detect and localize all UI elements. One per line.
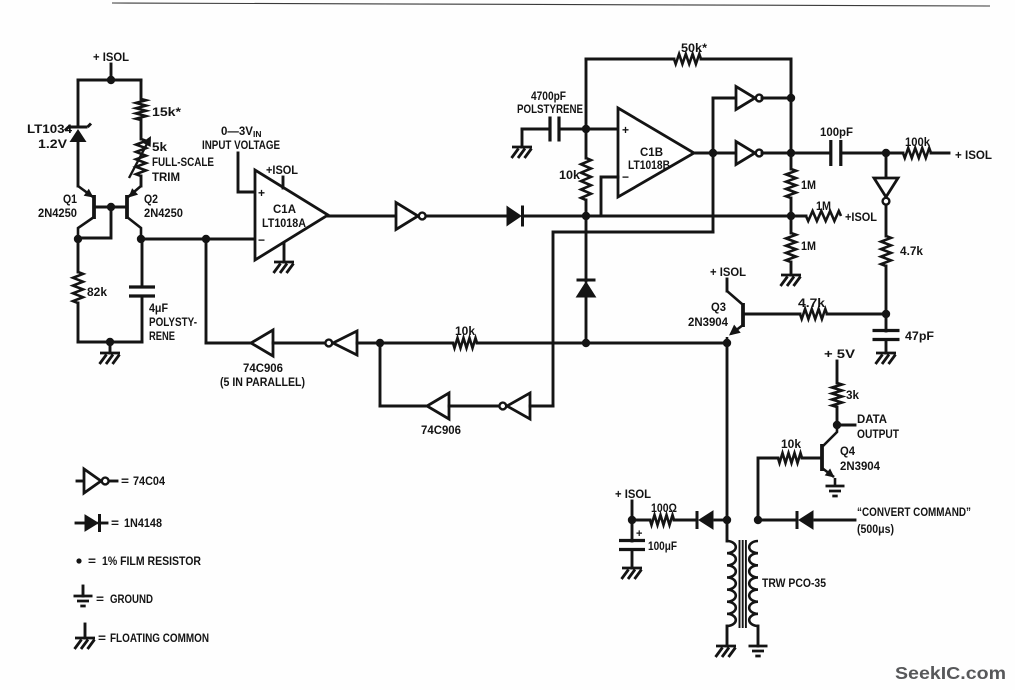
svg-text:4.7k: 4.7k: [798, 298, 826, 310]
capacitor 4700pF polystyrene: [550, 117, 559, 142]
node Q1 collector / 82k: [74, 235, 82, 243]
svg-text:POLSTYRENE: POLSTYRENE: [517, 104, 583, 116]
resistor 5k full-scale trim: [136, 139, 146, 176]
floating common 100uF: [622, 568, 643, 579]
wire 5V stub: [836, 361, 839, 383]
wire C1B output down: [712, 153, 715, 232]
wire left branch down: [77, 80, 80, 126]
svg-text:10k: 10k: [559, 170, 581, 182]
svg-text:3k: 3k: [846, 390, 860, 402]
svg-text:=: =: [88, 556, 96, 568]
wire 1M horizontal lead: [791, 215, 806, 218]
svg-text:RENE: RENE: [149, 331, 175, 343]
svg-text:74C906: 74C906: [421, 425, 461, 437]
svg-text:−: −: [622, 170, 629, 184]
svg-text:FLOATING COMMON: FLOATING COMMON: [110, 633, 209, 645]
node Q2 collector: [137, 235, 145, 243]
svg-text:+ ISOL: + ISOL: [615, 489, 651, 501]
wire summing row: [141, 238, 254, 241]
wire D3 to node: [715, 519, 727, 522]
wire 1M lower lead: [790, 216, 793, 233]
svg-text:4.7k: 4.7k: [900, 246, 924, 258]
wire Q3 emitter to transformer: [726, 343, 729, 520]
wire 100ohm left lead: [632, 519, 650, 522]
svg-text:INPUT VOLTAGE: INPUT VOLTAGE: [202, 140, 280, 152]
wire down inverter out: [885, 206, 888, 236]
node 1M junction: [787, 212, 795, 220]
svg-text:15k*: 15k*: [152, 107, 182, 119]
svg-text:Q1: Q1: [63, 194, 78, 206]
node 4.7k 47pF: [882, 310, 890, 318]
node C1B output: [709, 149, 717, 157]
svg-text:GROUND: GROUND: [110, 594, 153, 606]
svg-text:4μF: 4μF: [149, 303, 168, 315]
wire feedback rail: [790, 59, 793, 169]
transistor Q2 2N4250: [125, 195, 129, 219]
wire feedback top left: [586, 58, 674, 61]
svg-text:+ ISOL: + ISOL: [710, 267, 746, 279]
wire zener to Q1 emitter: [77, 142, 80, 186]
wire Q2 collector to cap: [141, 240, 144, 287]
wire Q3 base: [743, 313, 800, 316]
wire vertical diode to 10k row: [585, 297, 588, 343]
svg-text:TRIM: TRIM: [152, 172, 180, 184]
wire to 100pF: [791, 152, 830, 155]
wire 100pF to node: [841, 152, 886, 155]
resistor 1M lower: [786, 233, 796, 262]
svg-text:+ ISOL: + ISOL: [93, 52, 129, 64]
wire 100uF top lead: [631, 520, 634, 541]
trim arrow on 5k: [129, 140, 149, 178]
wire to 47pF: [885, 314, 888, 331]
capacitor 4uF polystyrene: [129, 287, 155, 296]
transformer primary winding: [727, 541, 736, 626]
svg-text:FULL-SCALE: FULL-SCALE: [152, 157, 214, 169]
svg-text:100pF: 100pF: [820, 127, 853, 139]
wire bottom row left: [380, 405, 427, 408]
wire 100k to isol: [931, 152, 949, 155]
svg-text:=: =: [111, 518, 119, 530]
wire 47pF to fc: [885, 340, 888, 353]
wire 4700pF fc drop: [521, 129, 524, 147]
svg-text:74C906: 74C906: [243, 363, 283, 375]
svg-text:C1A: C1A: [273, 204, 296, 216]
resistor 100k: [903, 148, 931, 158]
wire secondary up to 10k: [758, 458, 778, 520]
wire 4.7k h to node: [827, 313, 886, 316]
legend ground symbol: [74, 596, 93, 606]
inverter 74C04 after C1A: [396, 203, 418, 230]
node C1B plus input: [582, 125, 590, 133]
node 10k row mid: [582, 339, 590, 347]
svg-text:1M: 1M: [816, 201, 831, 213]
wire 10k to diode node: [585, 200, 588, 216]
svg-text:+ISOL: +ISOL: [266, 165, 298, 177]
svg-text:5k: 5k: [152, 142, 168, 154]
wire convert command lead: [815, 519, 855, 522]
svg-text:10k: 10k: [455, 326, 476, 338]
svg-text:2N4250: 2N4250: [144, 208, 183, 220]
svg-text:=: =: [98, 633, 106, 645]
wire 5k to Q2 emitter: [140, 176, 143, 186]
svg-text:−: −: [258, 233, 265, 247]
wire 10k to Q4 base: [802, 457, 822, 460]
node 100uF: [628, 516, 636, 524]
resistor 4.7k vertical: [881, 236, 891, 266]
wire 1M lower to fc: [790, 262, 793, 275]
svg-text:2N3904: 2N3904: [688, 317, 729, 329]
legend inverter 74C04: [84, 469, 101, 493]
svg-text:Q2: Q2: [144, 194, 158, 206]
svg-text:DATA: DATA: [857, 414, 887, 426]
svg-text:+: +: [636, 528, 642, 540]
svg-text:+ISOL: +ISOL: [845, 212, 877, 224]
wire isol stub bottom: [631, 501, 634, 520]
wire diode to node: [523, 215, 586, 218]
node 74C906 row: [376, 339, 384, 347]
inverter 74C906 D: [507, 393, 530, 419]
resistor 10k row: [453, 338, 477, 348]
resistor 50k feedback: [674, 54, 701, 64]
wire bottom rail left: [78, 341, 142, 344]
legend diode lead right: [99, 522, 107, 525]
wire 10k row left: [380, 342, 453, 345]
wire minus line: [586, 215, 791, 218]
wire primary top: [726, 520, 729, 541]
svg-text:=: =: [96, 594, 104, 606]
svg-text:100μF: 100μF: [648, 541, 677, 553]
node 100pF out: [882, 149, 890, 157]
svg-text:“CONVERT COMMAND”: “CONVERT COMMAND”: [857, 507, 971, 519]
node base rail: [107, 203, 115, 211]
diode 1N4148 D3: [696, 511, 699, 529]
wire output node up: [712, 98, 715, 153]
legend floating common symbol: [75, 638, 96, 649]
transistor Q1 2N4250: [92, 195, 96, 219]
wire data output stub: [837, 424, 855, 427]
wire cap to plus input: [559, 128, 618, 131]
resistor 10k vertical: [581, 158, 591, 200]
svg-text:2N4250: 2N4250: [38, 208, 77, 220]
wire floating common stub: [109, 342, 112, 353]
diode 1N4148 D4 convert: [796, 511, 799, 529]
legend ground stub: [82, 586, 85, 596]
transformer secondary winding: [749, 541, 758, 626]
wire top rail: [78, 79, 141, 82]
wire C1B minus input: [601, 177, 618, 216]
svg-text:2N3904: 2N3904: [840, 461, 881, 473]
legend film resistor dot: [76, 558, 81, 563]
wire input voltage: [238, 153, 255, 192]
resistor 1M horizontal: [806, 211, 841, 221]
node feedback rail upper: [787, 94, 795, 102]
svg-text:TRW PCO-35: TRW PCO-35: [762, 578, 827, 590]
wire 82k bottom: [77, 303, 80, 342]
capacitor 100uF: [619, 541, 645, 550]
node secondary top: [754, 516, 762, 524]
wire primary bottom: [726, 626, 729, 646]
legend fc stub: [84, 624, 87, 638]
wire up to C1B output: [553, 232, 713, 406]
svg-text:+ 5V: + 5V: [824, 349, 855, 361]
svg-text:74C04: 74C04: [133, 476, 166, 488]
floating common 47pF: [876, 353, 897, 364]
svg-text:+ ISOL: + ISOL: [955, 150, 992, 162]
node transformer primary top: [723, 516, 731, 524]
wire C1A output: [328, 215, 396, 218]
floating common 1M column: [781, 275, 802, 286]
svg-text:POLYSTY-: POLYSTY-: [149, 317, 197, 329]
svg-text:1.2V: 1.2V: [38, 139, 67, 151]
legend diode lead: [76, 522, 85, 525]
inverter 74C04 lower: [736, 142, 755, 165]
wire 15k to 5k: [140, 120, 143, 139]
legend diode 1N4148: [85, 515, 98, 531]
wire secondary bottom: [757, 626, 760, 646]
node data output: [833, 421, 841, 429]
wire bottom between: [449, 405, 500, 408]
resistor 100ohm: [650, 515, 674, 525]
diode 1N4148 D1: [507, 207, 521, 226]
wire 82k leads: [77, 240, 80, 272]
resistor 10k Q4: [778, 453, 802, 463]
svg-text:47pF: 47pF: [905, 331, 934, 343]
wire 15k top lead: [140, 80, 143, 99]
wire 1M upper to node: [790, 198, 793, 216]
wire to upper buffer: [713, 97, 736, 100]
wire 100k lead: [886, 152, 903, 155]
floating common transformer: [716, 646, 737, 657]
wire C1B output: [694, 152, 736, 155]
wire Q3 collector stub: [726, 279, 729, 291]
node integrator input: [582, 212, 590, 220]
wire inverter to diode: [426, 215, 508, 218]
op-amp C1A LT1018A: [255, 170, 328, 260]
svg-text:SeekIC.com: SeekIC.com: [895, 663, 1006, 683]
wire 100uF to fc: [631, 550, 634, 568]
wire node down to 74C906 row: [205, 239, 208, 343]
svg-text:1% FILM RESISTOR: 1% FILM RESISTOR: [102, 556, 202, 568]
svg-text:(5 IN PARALLEL): (5 IN PARALLEL): [220, 377, 305, 389]
wire base rail down-left: [78, 207, 111, 238]
wire Q1-Q2 base rail: [94, 206, 127, 209]
node bottom rail: [106, 338, 114, 346]
wire feedback top right: [701, 59, 791, 98]
ground Q4 emitter: [826, 486, 845, 496]
svg-text:=: =: [121, 476, 129, 488]
wire secondary to convert diode: [758, 519, 797, 522]
inverter 74C04 down: [874, 178, 898, 197]
wire C1A fc stub: [283, 243, 286, 262]
inverter 74C906 A: [251, 330, 273, 356]
floating common C1A: [274, 262, 295, 273]
node Q3 emitter: [723, 339, 731, 347]
wire 3k to collector: [836, 407, 839, 426]
resistor 82k: [73, 272, 83, 303]
wire +ISOL stub: [110, 64, 113, 80]
node summing to feedback: [202, 235, 210, 243]
transformer core: [740, 540, 746, 628]
svg-text:10k: 10k: [781, 439, 802, 451]
wire 74C906 row left: [206, 342, 251, 345]
svg-text:100k: 100k: [905, 137, 931, 149]
wire upper buffer out: [762, 97, 791, 100]
transistor Q4 2N3904: [820, 444, 824, 471]
svg-text:C1B: C1B: [640, 147, 663, 159]
svg-text:+: +: [258, 186, 265, 200]
ground transformer: [749, 646, 768, 656]
zener diode LT1034: [65, 124, 91, 131]
node +ISOL top rail: [107, 76, 115, 84]
wire 100ohm to diode: [674, 519, 697, 522]
transistor Q3 2N3904: [741, 303, 745, 327]
wire between buffers: [273, 342, 326, 345]
svg-text:Q3: Q3: [711, 302, 726, 314]
wire 10k row right: [477, 342, 586, 345]
wire 4.7k to node: [885, 266, 888, 314]
svg-text:OUTPUT: OUTPUT: [857, 429, 899, 441]
wire lower buffer out: [762, 152, 791, 155]
wire row node down: [379, 343, 382, 406]
top rule line: [112, 3, 990, 6]
wire node to vertical diode: [585, 216, 588, 281]
wire bottom row right: [530, 405, 553, 408]
svg-text:4700pF: 4700pF: [531, 91, 566, 103]
svg-text:LT1018B: LT1018B: [628, 160, 670, 172]
diode 1N4148 vertical D2: [577, 279, 596, 282]
wire row to Q3 emitter: [586, 342, 727, 345]
svg-text:(500μs): (500μs): [857, 524, 894, 536]
svg-text:82k: 82k: [87, 287, 108, 299]
inverter 74C04 upper: [736, 87, 755, 110]
wire vert 586 top: [585, 59, 588, 158]
svg-text:LT1034: LT1034: [27, 124, 73, 136]
wire isol tick C1A: [282, 177, 285, 188]
svg-text:+: +: [622, 123, 629, 137]
floating common (left pair): [100, 353, 121, 364]
resistor 4.7k horizontal: [800, 309, 827, 319]
capacitor 100pF: [831, 140, 841, 166]
legend 74C04 input stub: [77, 480, 84, 483]
resistor 1M upper: [786, 169, 796, 198]
svg-text:1N4148: 1N4148: [124, 518, 163, 530]
svg-text:100Ω: 100Ω: [651, 503, 677, 515]
wire 4700pF left lead: [522, 128, 550, 131]
legend 74C04 output stub: [109, 480, 117, 483]
svg-text:Q4: Q4: [840, 446, 856, 458]
op-amp C1B LT1018B: [618, 108, 694, 197]
wire node to down inverter: [885, 153, 888, 178]
capacitor 47pF: [873, 331, 900, 340]
svg-text:50k*: 50k*: [681, 43, 708, 55]
svg-text:LT1018A: LT1018A: [262, 218, 306, 230]
inverter 74C906 C: [427, 393, 449, 419]
inverter 74C906 B: [333, 331, 357, 355]
floating common 4700pF: [512, 147, 533, 158]
wire cap to bottom rail: [141, 296, 144, 342]
resistor 15k: [136, 99, 146, 120]
svg-text:1M: 1M: [801, 180, 816, 192]
wire buffer B input: [357, 342, 380, 345]
svg-text:1M: 1M: [801, 241, 816, 253]
resistor 3k: [832, 383, 842, 407]
node feedback rail lower: [787, 149, 795, 157]
